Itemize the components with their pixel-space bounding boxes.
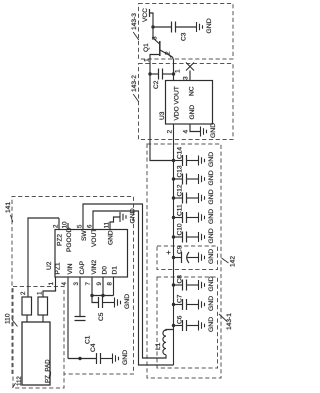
label 142 (222, 256, 237, 267)
pin label PZ1 (55, 262, 62, 274)
svg-text:143-2: 143-2 (131, 75, 138, 92)
wire Q1 base down-left (150, 55, 160, 75)
svg-text:C9: C9 (177, 245, 184, 254)
block 110 dashed box (13, 287, 64, 389)
node bus at C11 (172, 216, 175, 219)
wire electrode 1 to pad (42, 315, 44, 322)
svg-text:2: 2 (20, 291, 27, 295)
svg-text:GND: GND (206, 18, 213, 33)
pin 2 label U3 (167, 130, 174, 134)
wire D0 D1 VIN2 junction (90, 294, 113, 297)
svg-text:SW: SW (81, 230, 88, 241)
node bus at C7 (172, 303, 175, 306)
capacitor C12 (174, 184, 199, 203)
svg-text:GND: GND (108, 230, 115, 245)
svg-text:GND: GND (208, 209, 215, 224)
mcu U2 (46, 230, 128, 278)
power terminal VCC (142, 8, 153, 27)
svg-text:2: 2 (53, 224, 60, 228)
node C2 left (148, 72, 151, 75)
svg-text:GND: GND (208, 152, 215, 167)
svg-text:143-3: 143-3 (131, 13, 138, 30)
block 143-2 dashed box (139, 64, 234, 140)
node bus at C14 (172, 159, 175, 162)
svg-text:141: 141 (5, 202, 12, 213)
pin label GND U2 (108, 230, 115, 245)
label 141 (5, 202, 13, 222)
svg-text:C7: C7 (177, 294, 184, 303)
svg-text:GND: GND (208, 249, 215, 264)
node bus at C10 (172, 235, 175, 238)
svg-text:3: 3 (183, 76, 190, 80)
capacitor C9 polarized (167, 245, 199, 263)
svg-text:GND: GND (124, 294, 131, 309)
svg-text:5: 5 (77, 224, 84, 228)
svg-text:L1: L1 (155, 342, 162, 350)
wire node to C5 (92, 296, 99, 303)
pin label GND U3 (189, 105, 196, 120)
no-connect X on U3 pin3 (186, 63, 194, 81)
pin 9 stub U2 D0 (96, 277, 103, 296)
pin 5 label U2 SW (77, 224, 84, 228)
svg-text:VCC: VCC (142, 8, 149, 22)
svg-text:4: 4 (61, 282, 68, 286)
svg-text:D0: D0 (102, 266, 109, 275)
svg-text:C3: C3 (181, 32, 188, 41)
label 143-3 (131, 13, 139, 40)
svg-text:GND: GND (122, 350, 129, 365)
svg-text:Q1: Q1 (143, 43, 150, 52)
svg-text:C4: C4 (90, 343, 97, 352)
electrode 2 (20, 291, 32, 315)
wire PZ1 to electrode 1 (43, 289, 56, 297)
electrode 1 (37, 291, 48, 315)
svg-text:C13: C13 (177, 165, 184, 177)
svg-text:10: 10 (62, 221, 69, 228)
pin 10 stub U2 PGOOD (62, 221, 69, 229)
label 112 (13, 376, 24, 388)
svg-text:NC: NC (189, 86, 196, 96)
svg-text:1: 1 (175, 69, 182, 73)
svg-text:GND: GND (210, 123, 217, 138)
svg-text:112: 112 (16, 376, 23, 386)
capacitor C13 (174, 165, 199, 184)
svg-text:3: 3 (73, 282, 80, 286)
wire U3 pin1 stub (173, 74, 175, 81)
node bus at C8 (172, 283, 175, 286)
pin 11 stub U2 GND (104, 217, 120, 230)
ground at C11 (199, 209, 216, 224)
svg-text:8: 8 (107, 282, 114, 286)
wire VCC to C3 (153, 26, 172, 28)
wire C3 to ground (176, 26, 197, 28)
svg-text:PZ1: PZ1 (55, 262, 62, 274)
ground at U3 pin4 (201, 123, 218, 138)
ground at C9 (199, 249, 216, 264)
capacitor C7 (174, 294, 199, 310)
svg-text:PGOOD: PGOOD (66, 227, 73, 252)
svg-text:D1: D1 (112, 266, 119, 275)
pin 1 label U3 (175, 69, 182, 73)
svg-text:C2: C2 (153, 80, 160, 89)
pin label PGOOD (66, 227, 73, 252)
svg-text:VDO: VDO (174, 106, 181, 120)
svg-text:C5: C5 (98, 312, 105, 321)
svg-text:GND: GND (208, 189, 215, 204)
ground at C12 (199, 189, 216, 204)
svg-text:VIN: VIN (67, 263, 74, 274)
capacitor C1 (75, 317, 92, 345)
svg-text:GND: GND (208, 228, 215, 243)
svg-text:143-1: 143-1 (226, 313, 233, 330)
node bus at C9 (172, 256, 175, 259)
pin 2 stub U2 PZ2 (53, 218, 60, 230)
capacitor C4 (90, 343, 112, 364)
capacitor C5 (98, 297, 114, 321)
svg-text:GND: GND (189, 105, 196, 120)
capacitor C14 (174, 147, 199, 166)
label 143-1 (219, 313, 233, 330)
svg-text:CAP: CAP (79, 260, 86, 274)
svg-text:GND: GND (208, 276, 215, 291)
svg-text:VIN2: VIN2 (91, 260, 98, 275)
wire VDO rail (U3 pin2 to bus bottom) (173, 124, 175, 365)
pin label PZ2 (57, 234, 64, 246)
svg-text:C8: C8 (177, 275, 184, 284)
pin label D0 (102, 266, 109, 275)
wire to C2 (150, 73, 159, 75)
node C1 bottom (78, 357, 81, 360)
pin 1 stub U2 PZ1 (48, 277, 56, 291)
capacitor C10 (174, 223, 199, 242)
pin 4 stub U2 VIN (61, 277, 68, 359)
capacitor C8 (174, 275, 199, 291)
svg-text:4: 4 (183, 130, 190, 134)
wire C2 to node (163, 73, 174, 75)
svg-text:1: 1 (48, 282, 55, 286)
svg-text:GND: GND (208, 317, 215, 332)
svg-text:110: 110 (5, 313, 12, 324)
svg-text:2: 2 (167, 130, 174, 134)
capacitor C9 dashed box (157, 246, 218, 270)
pin label VDO U3 (174, 106, 181, 120)
regulator U3 (159, 81, 213, 125)
ground at C13 (199, 170, 216, 185)
wire VIN rail to C4 (68, 358, 97, 360)
wire PZ2 to electrode 2 (28, 218, 59, 297)
svg-text:GND: GND (208, 170, 215, 185)
block 143-1 dashed box (157, 277, 218, 368)
pin 1 label Q1 base (144, 58, 151, 62)
block 141 dashed box (12, 197, 134, 375)
pin 2 label Q1 emitter (165, 51, 172, 55)
svg-text:11: 11 (104, 222, 111, 229)
capacitor C2 (153, 69, 163, 90)
pin 3 stub U2 CAP (73, 277, 80, 317)
svg-text:9: 9 (96, 282, 103, 286)
pin 4 label U3 (183, 130, 190, 134)
pin label D1 (112, 266, 119, 275)
ground at C3 (197, 18, 214, 33)
piezo PZ PAD (22, 322, 52, 385)
svg-text:7: 7 (85, 282, 92, 286)
svg-text:2: 2 (165, 51, 172, 55)
svg-text:U2: U2 (46, 261, 53, 270)
transistor Q1 (143, 27, 173, 58)
pin 3 label Q1 collector (152, 36, 159, 40)
wire left rail from C2 to bus (150, 74, 174, 161)
svg-text:VOUT: VOUT (91, 229, 98, 247)
capacitor C11 (174, 204, 199, 223)
svg-text:C11: C11 (177, 204, 184, 216)
svg-text:GND: GND (130, 208, 137, 223)
svg-text:C1: C1 (85, 335, 92, 344)
block 143-3 dashed box (139, 4, 234, 60)
node bus at C13 (172, 177, 175, 180)
pin label CAP (79, 260, 86, 274)
ground at C4 (113, 350, 130, 365)
svg-text:PZ2: PZ2 (57, 234, 64, 246)
pin label VIN (67, 263, 74, 274)
svg-text:C12: C12 (177, 184, 184, 196)
svg-text:C6: C6 (177, 315, 184, 324)
inductor L1 (155, 330, 174, 355)
node bus at C12 (172, 196, 175, 199)
ground at C6 (199, 317, 216, 332)
node C2 right (172, 72, 175, 75)
wire L1 to SW (83, 204, 166, 358)
capacitor C6 (174, 315, 199, 331)
ground at U2 pin11 (120, 208, 137, 223)
capacitor C3 (172, 22, 188, 42)
label 110 (5, 313, 18, 326)
ground at C5 (115, 294, 132, 309)
pin label VIN2 (91, 260, 98, 275)
wire Q1 emitter down (173, 57, 174, 74)
label 143-2 (131, 75, 139, 102)
block 142 dashed box (147, 144, 221, 378)
ground at C14 (199, 152, 216, 167)
wire bus bottom to VOUT (93, 211, 174, 365)
wire U3 pin4 to ground (190, 124, 200, 132)
svg-text:GND: GND (208, 296, 215, 311)
pin 6 label U2 VOUT (87, 224, 94, 228)
node VCC junction (151, 25, 154, 28)
wire electrode 2 to pad (26, 315, 28, 322)
pin label VOUT U2 (91, 229, 98, 247)
svg-text:6: 6 (87, 224, 94, 228)
svg-text:1: 1 (37, 291, 44, 295)
node bus at C6 (172, 324, 175, 327)
svg-text:VOUT: VOUT (174, 86, 181, 104)
pin label VOUT U3 (174, 86, 181, 104)
pin label NC U3 (189, 86, 196, 96)
svg-text:3: 3 (152, 36, 159, 40)
svg-text:C10: C10 (177, 223, 184, 235)
pin label SW (81, 230, 88, 241)
ground at C7 (199, 296, 216, 311)
pin 8 stub U2 D1 (107, 277, 114, 296)
ground at C8 (199, 276, 216, 291)
pin 7 stub U2 VIN2 (85, 277, 92, 296)
svg-text:PZ_PAD: PZ_PAD (45, 359, 52, 383)
ground at C10 (199, 228, 216, 243)
svg-text:C14: C14 (177, 147, 184, 159)
pin 3 label U3 (183, 76, 190, 80)
svg-text:142: 142 (230, 256, 237, 267)
svg-text:U3: U3 (159, 111, 166, 120)
